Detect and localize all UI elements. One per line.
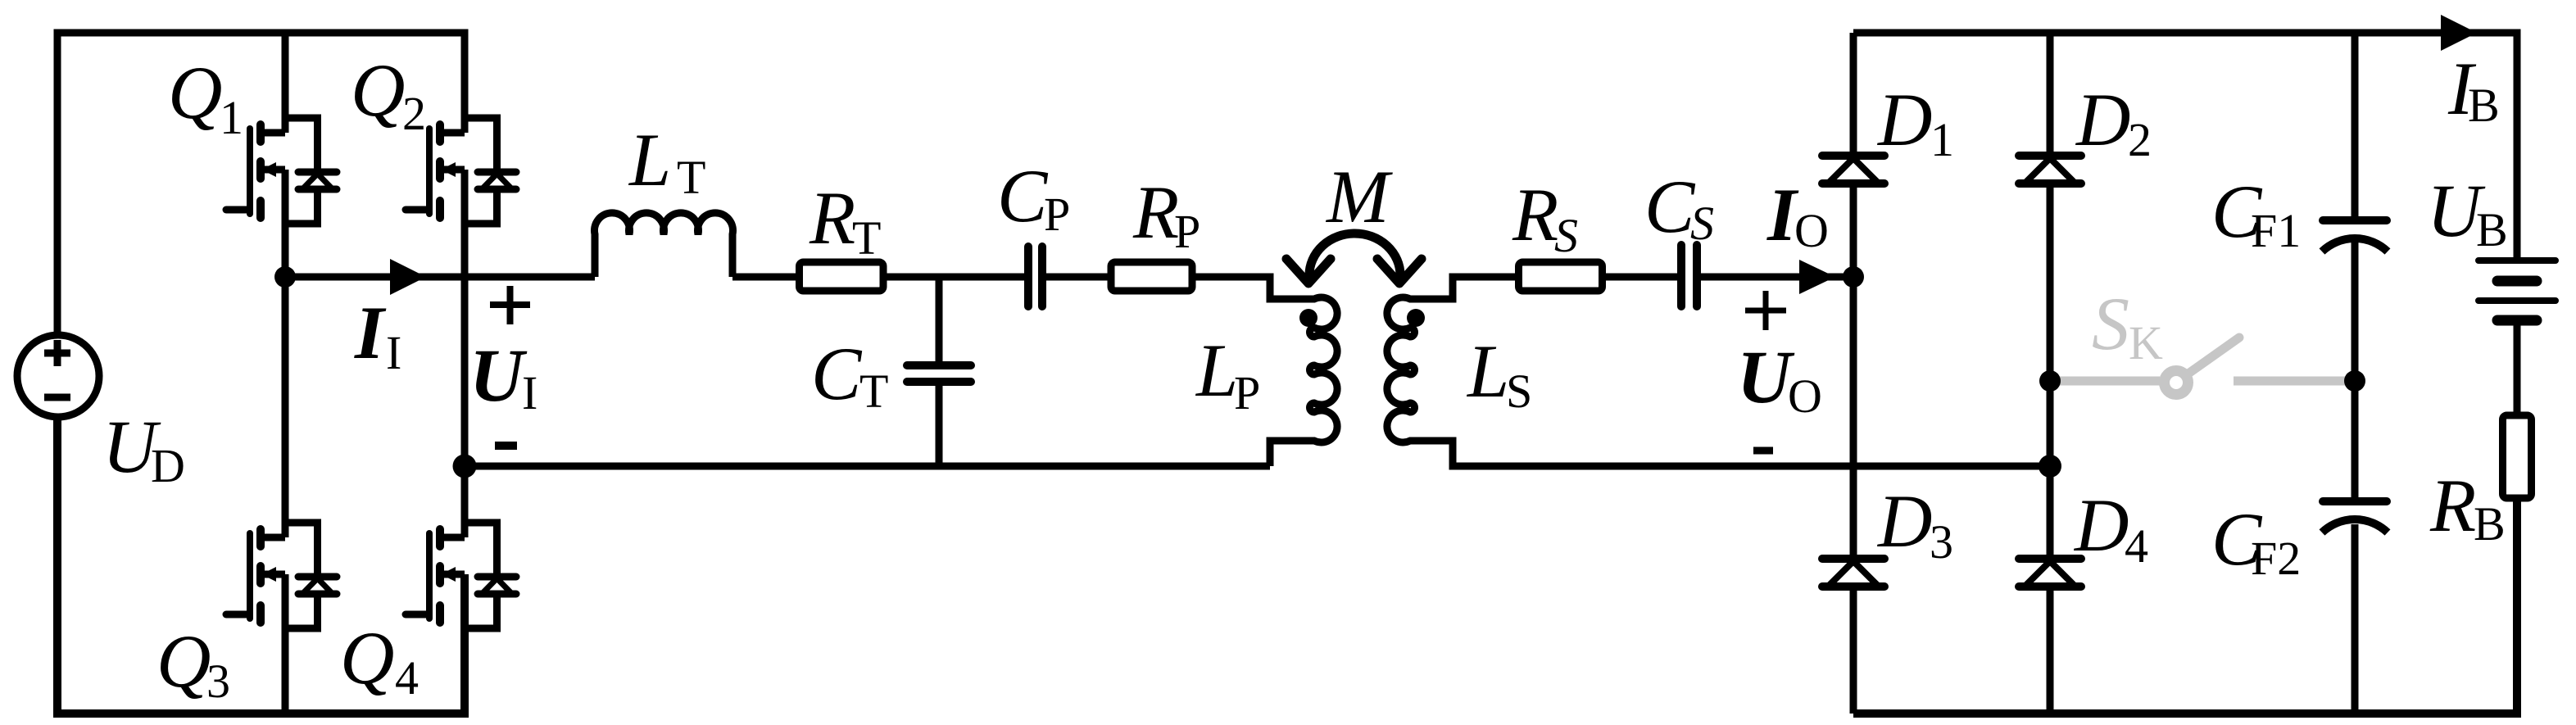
wire rectifier leg1: [1850, 33, 1857, 714]
svg-text:B: B: [2476, 203, 2508, 256]
arrow I_B: [2441, 15, 2477, 51]
svg-text:4: 4: [395, 651, 419, 705]
svg-text:C: C: [1644, 165, 1696, 248]
svg-text:O: O: [1788, 369, 1822, 423]
diode D2: [2019, 156, 2081, 184]
svg-text:3: 3: [206, 655, 230, 708]
svg-text:3: 3: [1930, 515, 1953, 569]
svg-text:D: D: [1876, 479, 1932, 563]
svg-text:Q: Q: [156, 619, 211, 703]
label UO plus: [1745, 291, 1786, 330]
svg-text:2: 2: [402, 87, 426, 140]
inductor LT: [595, 213, 733, 277]
svg-text:C: C: [811, 332, 863, 415]
wire CF leg: [2352, 33, 2359, 714]
svg-text:T: T: [677, 151, 705, 204]
svg-text:P: P: [1044, 188, 1070, 241]
label UI minus: [495, 442, 517, 450]
wire Q2-source/Q4-drain leg: [461, 170, 469, 537]
svg-text:Q: Q: [351, 48, 405, 132]
diode D3: [1822, 559, 1884, 587]
node dot rectifier right midpoint: [2039, 455, 2061, 478]
svg-text:T: T: [852, 211, 881, 265]
svg-text:R: R: [809, 176, 855, 260]
LP phase dot: [1299, 309, 1317, 327]
svg-text:C: C: [997, 154, 1049, 238]
node dot rectifier left midpoint: [1843, 266, 1864, 288]
svg-text:L: L: [1466, 329, 1509, 413]
diode D1: [1822, 156, 1884, 184]
wire rectifier leg2: [2047, 33, 2054, 714]
svg-text:Q: Q: [168, 51, 222, 134]
wire top rail right section: [1853, 33, 2517, 261]
svg-text:R: R: [1512, 173, 1558, 256]
wire bottom rail left bridge: [57, 417, 465, 714]
diode D4: [2019, 559, 2081, 587]
arrow I_O: [1799, 260, 1835, 294]
label UO minus: [1753, 447, 1773, 455]
mutual inductance M arrow: [1286, 233, 1422, 283]
wire LT to RT: [732, 274, 799, 281]
svg-text:I: I: [354, 291, 387, 374]
svg-text:I: I: [522, 366, 537, 419]
wire Q1 drain leg: [282, 33, 289, 133]
svg-text:D: D: [2073, 483, 2129, 567]
wire Q1-source/Q3-drain leg: [282, 170, 289, 537]
label UI plus: [490, 286, 530, 324]
svg-text:S: S: [1554, 209, 1578, 262]
svg-text:S: S: [1690, 197, 1714, 250]
svg-text:F2: F2: [2251, 532, 2301, 585]
svg-text:B: B: [2474, 497, 2506, 551]
transistor Q1: [226, 118, 337, 224]
wire CP to RP: [1042, 274, 1109, 281]
wire mid rail (inverter output): [285, 274, 595, 281]
svg-text:T: T: [859, 365, 888, 418]
svg-text:D: D: [151, 439, 185, 492]
capacitor CS: [1681, 245, 1697, 306]
svg-text:R: R: [2429, 464, 2476, 547]
svg-text:1: 1: [1930, 113, 1954, 166]
svg-text:4: 4: [2125, 519, 2148, 573]
arrow I_I: [390, 259, 426, 295]
svg-text:B: B: [2468, 79, 2500, 132]
inductor LP (primary coil): [1192, 277, 1337, 466]
svg-text:D: D: [2075, 78, 2130, 161]
svg-text:L: L: [628, 118, 671, 202]
svg-text:M: M: [1325, 155, 1393, 238]
capacitor CF2: [2322, 501, 2388, 532]
switch SK (grey): [2050, 338, 2355, 395]
node B dot (bridge right midpoint, U_I minus): [453, 455, 477, 478]
svg-text:P: P: [1174, 205, 1200, 258]
node dot SK right (CF midpoint): [2344, 370, 2365, 392]
svg-text:S: S: [1506, 365, 1532, 418]
resistor RT: [800, 262, 884, 291]
svg-text:F1: F1: [2251, 204, 2301, 257]
resistor RP: [1111, 262, 1192, 291]
wire top rail left bridge: [57, 33, 465, 335]
svg-text:D: D: [1876, 78, 1932, 161]
node dot SK left: [2039, 370, 2061, 392]
svg-text:U: U: [469, 333, 528, 417]
resistor RS: [1519, 262, 1603, 291]
transistor Q3: [226, 523, 337, 628]
wire bottom tank rail: [465, 463, 1270, 470]
wire bottom rail right section: [1853, 498, 2517, 714]
transistor Q4: [406, 523, 516, 628]
wire RT to CP: [883, 274, 1028, 281]
resistor RB: [2503, 415, 2532, 498]
capacitor CP: [1028, 247, 1042, 306]
svg-text:P: P: [1234, 366, 1260, 419]
voltage source UD: [17, 335, 99, 417]
wire Q3 source leg: [282, 574, 289, 714]
svg-text:S: S: [2092, 282, 2129, 365]
capacitor CF1: [2322, 220, 2388, 251]
transistor Q2: [406, 118, 516, 224]
svg-text:Q: Q: [340, 616, 394, 700]
LS phase dot: [1407, 309, 1425, 327]
battery UB: [2478, 261, 2556, 415]
svg-text:L: L: [1195, 329, 1238, 412]
svg-text:K: K: [2129, 316, 2163, 369]
inductor LS (secondary coil): [1387, 277, 2050, 466]
wire CS to rectifier: [1697, 274, 1853, 281]
svg-text:R: R: [1132, 170, 1179, 254]
svg-text:2: 2: [2128, 113, 2152, 166]
wire RS to CS: [1603, 274, 1681, 281]
capacitor CT branch: [907, 277, 971, 466]
svg-text:I: I: [386, 326, 401, 379]
svg-text:O: O: [1794, 204, 1829, 257]
svg-text:U: U: [1737, 335, 1795, 419]
node A dot (bridge left midpoint): [274, 266, 296, 288]
svg-text:1: 1: [220, 91, 243, 144]
